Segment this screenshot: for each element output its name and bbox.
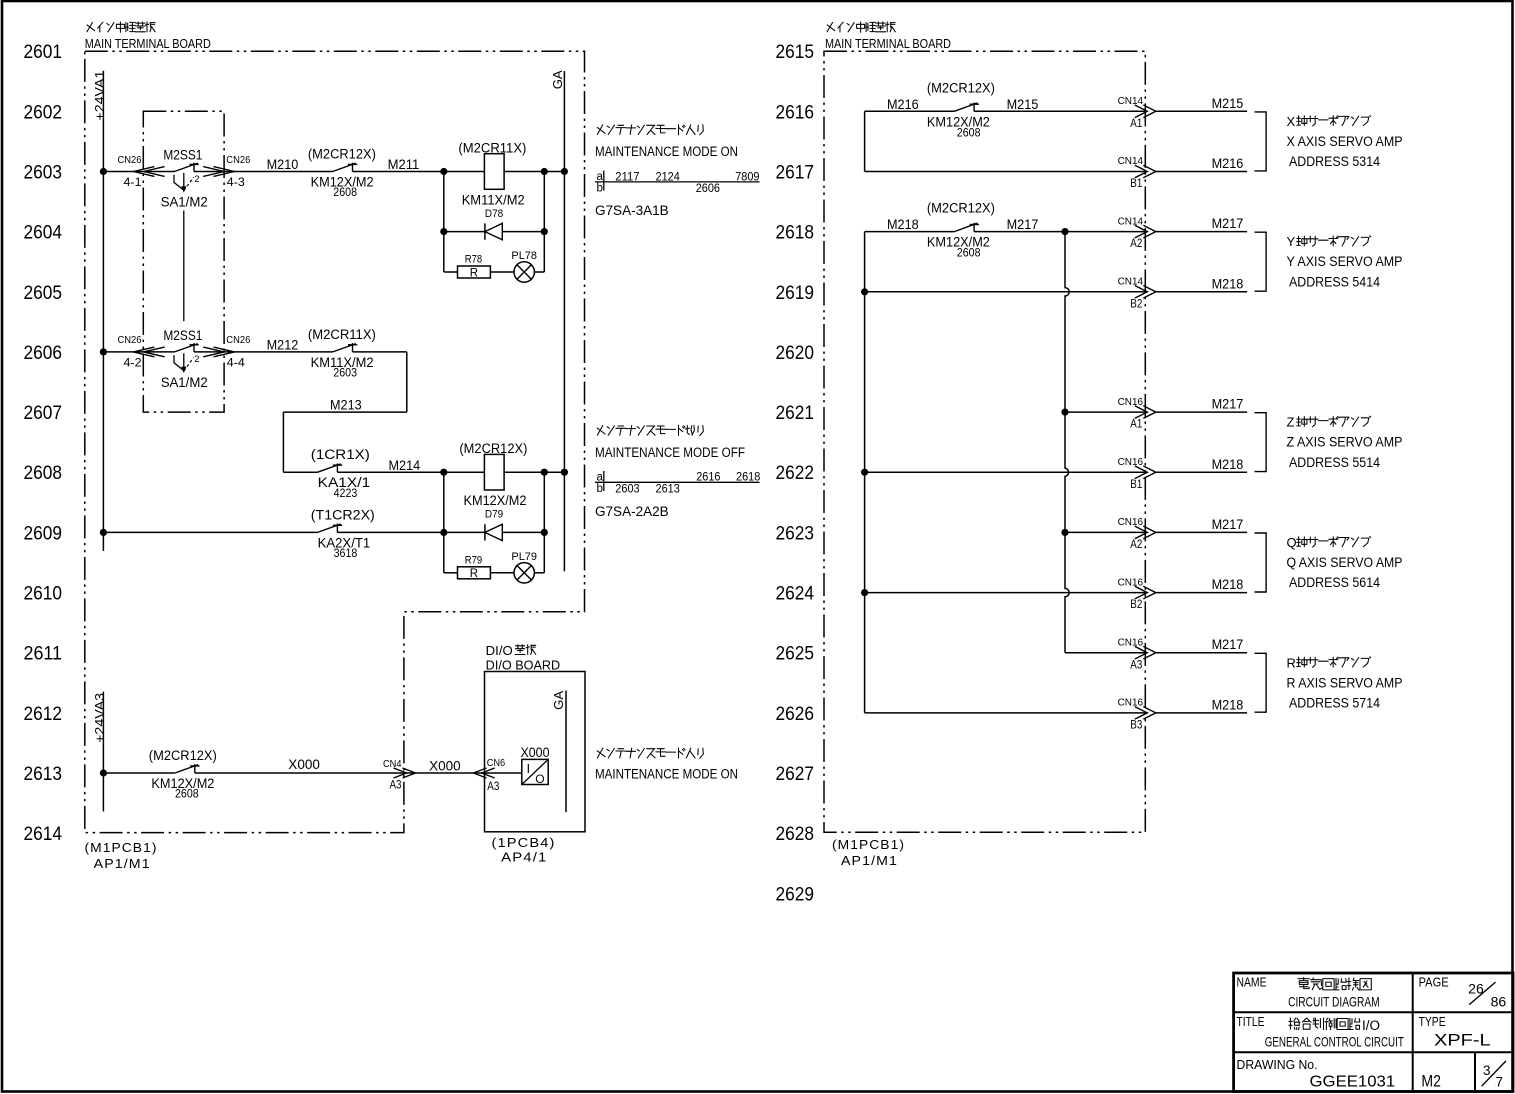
svg-text:R: R (470, 568, 478, 580)
svg-text:CN6: CN6 (487, 757, 506, 769)
svg-text:GENERAL CONTROL CIRCUIT: GENERAL CONTROL CIRCUIT (1265, 1033, 1404, 1049)
svg-text:2607: 2607 (24, 403, 63, 424)
svg-text:DRAWING No.: DRAWING No. (1237, 1057, 1318, 1072)
svg-text:2606: 2606 (24, 343, 63, 364)
svg-text:M217: M217 (1212, 216, 1244, 231)
svg-text:MAIN TERMINAL BOARD: MAIN TERMINAL BOARD (85, 37, 211, 51)
svg-text:3618: 3618 (334, 546, 358, 560)
svg-text:CN16: CN16 (1118, 396, 1144, 408)
svg-text:2622: 2622 (776, 463, 815, 484)
svg-text:2612: 2612 (24, 704, 63, 725)
svg-text:3: 3 (1483, 1063, 1491, 1078)
svg-text:X AXIS SERVO AMP: X AXIS SERVO AMP (1287, 134, 1403, 149)
svg-text:R: R (470, 267, 478, 279)
svg-text:R78: R78 (465, 254, 482, 266)
svg-text:2608: 2608 (175, 787, 199, 801)
svg-text:ADDRESS 5514: ADDRESS 5514 (1289, 455, 1380, 470)
svg-text:ADDRESS 5314: ADDRESS 5314 (1289, 154, 1380, 169)
svg-text:CN26: CN26 (226, 154, 250, 166)
svg-text:CN4: CN4 (383, 758, 402, 770)
svg-text:2618: 2618 (736, 470, 761, 484)
svg-text:2626: 2626 (776, 704, 815, 725)
svg-text:2608: 2608 (333, 185, 357, 199)
svg-text:GGEE1031: GGEE1031 (1310, 1073, 1396, 1090)
svg-text:B2: B2 (1130, 599, 1142, 611)
svg-text:M213: M213 (330, 398, 362, 413)
svg-text:Z AXIS SERVO AMP: Z AXIS SERVO AMP (1287, 435, 1403, 450)
svg-text:2618: 2618 (776, 223, 815, 244)
svg-text:R: R (1287, 655, 1296, 670)
svg-text:2611: 2611 (24, 644, 63, 665)
svg-text:D78: D78 (485, 208, 503, 220)
svg-text:2: 2 (194, 174, 199, 185)
svg-text:(M2CR11X): (M2CR11X) (458, 141, 526, 156)
svg-text:(M2CR12X): (M2CR12X) (927, 80, 995, 95)
svg-text:M218: M218 (887, 217, 919, 232)
svg-text:2620: 2620 (776, 343, 815, 364)
svg-text:CN14: CN14 (1118, 155, 1144, 167)
svg-text:2614: 2614 (24, 824, 63, 845)
svg-text:b: b (596, 483, 602, 495)
svg-text:A2: A2 (1130, 539, 1142, 551)
svg-text:M217: M217 (1212, 397, 1244, 412)
svg-text:AP4/1: AP4/1 (501, 850, 547, 865)
svg-text:GA: GA (552, 690, 566, 710)
svg-text:Y: Y (1287, 234, 1296, 249)
svg-text:2608: 2608 (957, 246, 981, 260)
svg-text:M2SS1: M2SS1 (163, 328, 202, 343)
svg-text:GA: GA (551, 70, 565, 90)
svg-text:2625: 2625 (776, 644, 815, 665)
svg-text:2610: 2610 (24, 584, 63, 605)
svg-text:4-4: 4-4 (227, 358, 246, 370)
svg-text:2624: 2624 (776, 584, 815, 605)
svg-text:2124: 2124 (656, 169, 681, 183)
svg-text:CN26: CN26 (226, 334, 250, 346)
svg-text:2603: 2603 (24, 163, 63, 184)
svg-text:A1: A1 (1130, 118, 1142, 130)
svg-text:M215: M215 (1212, 96, 1244, 111)
svg-text:2617: 2617 (776, 163, 815, 184)
svg-text:2604: 2604 (24, 223, 63, 244)
svg-text:(M1PCB1): (M1PCB1) (832, 837, 905, 852)
svg-text:(M2CR12X): (M2CR12X) (308, 147, 376, 162)
svg-text:(T1CR2X): (T1CR2X) (311, 507, 375, 522)
svg-text:M2SS1: M2SS1 (163, 148, 202, 163)
svg-text:A2: A2 (1130, 238, 1142, 250)
svg-text:CN16: CN16 (1118, 516, 1144, 528)
svg-text:XPF-L: XPF-L (1434, 1030, 1491, 1049)
svg-text:M216: M216 (1212, 156, 1244, 171)
svg-text:R79: R79 (465, 555, 482, 567)
svg-text:Z: Z (1287, 415, 1295, 430)
svg-text:(M2CR12X): (M2CR12X) (149, 748, 217, 763)
svg-text:AP1/M1: AP1/M1 (94, 856, 151, 871)
svg-text:2623: 2623 (776, 523, 815, 544)
svg-text:7809: 7809 (735, 169, 760, 183)
svg-text:M216: M216 (887, 97, 919, 112)
svg-text:2616: 2616 (776, 102, 815, 123)
svg-text:2608: 2608 (24, 463, 63, 484)
svg-text:X000: X000 (429, 759, 461, 774)
svg-text:ADDRESS 5414: ADDRESS 5414 (1289, 274, 1380, 289)
svg-text:(M1PCB1): (M1PCB1) (85, 840, 158, 855)
svg-text:I/O: I/O (1362, 1018, 1380, 1033)
svg-text:2602: 2602 (24, 102, 63, 123)
svg-text:M214: M214 (389, 458, 421, 473)
svg-text:M215: M215 (1007, 97, 1039, 112)
svg-text:CN16: CN16 (1118, 456, 1144, 468)
svg-text:2616: 2616 (696, 470, 721, 484)
svg-text:Y AXIS SERVO AMP: Y AXIS SERVO AMP (1287, 254, 1403, 269)
svg-text:CN26: CN26 (118, 334, 142, 346)
svg-text:2613: 2613 (24, 764, 63, 785)
svg-text:(M2CR12X): (M2CR12X) (927, 201, 995, 216)
svg-text:2613: 2613 (656, 482, 681, 496)
svg-text:4-3: 4-3 (227, 177, 245, 189)
svg-text:4-2: 4-2 (124, 358, 142, 370)
svg-text:7: 7 (1496, 1074, 1504, 1089)
svg-text:2627: 2627 (776, 764, 815, 785)
svg-text:2615: 2615 (776, 42, 815, 63)
svg-text:86: 86 (1491, 995, 1507, 1010)
svg-text:O: O (535, 772, 544, 786)
svg-text:DI/O: DI/O (486, 644, 513, 658)
svg-text:ADDRESS 5714: ADDRESS 5714 (1289, 695, 1380, 710)
svg-text:M217: M217 (1007, 217, 1039, 232)
svg-text:M217: M217 (1212, 517, 1244, 532)
svg-text:ADDRESS 5614: ADDRESS 5614 (1289, 575, 1380, 590)
svg-text:M218: M218 (1212, 276, 1244, 291)
svg-text:(M2CR12X): (M2CR12X) (459, 441, 527, 456)
svg-text:Q AXIS SERVO AMP: Q AXIS SERVO AMP (1287, 555, 1403, 570)
svg-text:PL78: PL78 (511, 250, 537, 262)
svg-text:M2: M2 (1421, 1071, 1441, 1090)
svg-text:TYPE: TYPE (1419, 1014, 1446, 1029)
svg-text:A1: A1 (1130, 419, 1142, 431)
svg-text:DI/O BOARD: DI/O BOARD (486, 658, 561, 672)
svg-text:MAIN TERMINAL BOARD: MAIN TERMINAL BOARD (825, 37, 951, 51)
svg-text:+24VA3: +24VA3 (92, 693, 107, 743)
svg-text:A3: A3 (487, 781, 499, 793)
svg-text:2609: 2609 (24, 523, 63, 544)
svg-text:MAINTENANCE MODE OFF: MAINTENANCE MODE OFF (595, 445, 745, 460)
svg-text:+24VA1: +24VA1 (92, 71, 107, 121)
svg-text:CN14: CN14 (1118, 276, 1144, 288)
svg-text:2603: 2603 (615, 482, 640, 496)
svg-text:2608: 2608 (957, 125, 981, 139)
svg-text:X000: X000 (288, 757, 320, 772)
svg-text:b: b (596, 183, 602, 195)
svg-text:X: X (1287, 114, 1296, 129)
svg-text:CN14: CN14 (1118, 215, 1144, 227)
svg-text:B1: B1 (1130, 479, 1142, 491)
svg-text:TITLE: TITLE (1237, 1014, 1265, 1029)
svg-text:4-1: 4-1 (124, 177, 142, 189)
svg-text:M211: M211 (388, 157, 420, 172)
svg-text:CIRCUIT DIAGRAM: CIRCUIT DIAGRAM (1288, 993, 1380, 1009)
svg-text:2629: 2629 (776, 884, 815, 905)
svg-text:CN16: CN16 (1118, 636, 1144, 648)
svg-text:M217: M217 (1212, 637, 1244, 652)
svg-text:2619: 2619 (776, 283, 815, 304)
svg-text:CN16: CN16 (1118, 576, 1144, 588)
svg-text:D79: D79 (485, 509, 503, 521)
svg-text:I: I (527, 761, 531, 776)
svg-text:2117: 2117 (615, 169, 640, 183)
svg-text:B3: B3 (1130, 720, 1142, 732)
svg-text:SA1/M2: SA1/M2 (161, 375, 208, 390)
svg-text:2: 2 (194, 354, 199, 365)
svg-text:M210: M210 (267, 157, 299, 172)
svg-text:M218: M218 (1212, 457, 1244, 472)
svg-text:A3: A3 (390, 780, 402, 792)
svg-text:CN26: CN26 (118, 154, 142, 166)
svg-text:G7SA-3A1B: G7SA-3A1B (595, 203, 669, 218)
svg-text:(1CR1X): (1CR1X) (311, 447, 370, 462)
svg-text:KM11X/M2: KM11X/M2 (462, 193, 525, 208)
svg-text:(M2CR11X): (M2CR11X) (308, 327, 376, 342)
svg-text:B1: B1 (1130, 178, 1142, 190)
svg-text:NAME: NAME (1237, 975, 1267, 990)
svg-text:4223: 4223 (334, 486, 358, 500)
svg-text:2621: 2621 (776, 403, 815, 424)
svg-text:SA1/M2: SA1/M2 (161, 194, 208, 209)
svg-text:G7SA-2A2B: G7SA-2A2B (595, 504, 669, 519)
svg-text:MAINTENANCE MODE ON: MAINTENANCE MODE ON (595, 767, 738, 782)
svg-text:2603: 2603 (333, 365, 357, 379)
svg-text:2628: 2628 (776, 824, 815, 845)
svg-text:CN16: CN16 (1118, 697, 1144, 709)
svg-text:X000: X000 (521, 745, 550, 760)
svg-text:MAINTENANCE MODE ON: MAINTENANCE MODE ON (595, 144, 738, 159)
svg-text:M218: M218 (1212, 577, 1244, 592)
svg-text:PAGE: PAGE (1419, 975, 1449, 990)
svg-text:M212: M212 (267, 337, 299, 352)
svg-text:PL79: PL79 (511, 551, 537, 563)
svg-text:B2: B2 (1130, 298, 1142, 310)
svg-text:2606: 2606 (696, 181, 721, 195)
svg-text:(1PCB4): (1PCB4) (492, 835, 556, 850)
svg-text:M218: M218 (1212, 697, 1244, 712)
svg-text:R AXIS SERVO AMP: R AXIS SERVO AMP (1287, 675, 1403, 690)
svg-text:AP1/M1: AP1/M1 (841, 853, 898, 868)
svg-text:CN14: CN14 (1118, 95, 1144, 107)
svg-text:2601: 2601 (24, 42, 63, 63)
svg-text:2605: 2605 (24, 283, 63, 304)
svg-text:Q: Q (1287, 535, 1297, 550)
svg-text:A3: A3 (1130, 659, 1142, 671)
svg-text:KM12X/M2: KM12X/M2 (464, 493, 527, 508)
